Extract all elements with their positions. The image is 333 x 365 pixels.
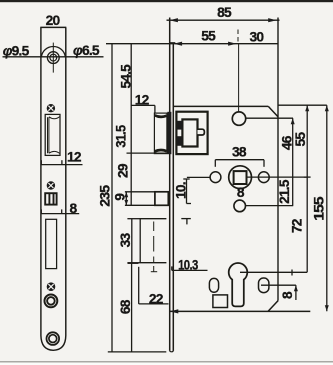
case bottom-right chamfer xyxy=(268,301,278,312)
dim 68 line xyxy=(131,263,133,352)
faceplate bottom cap xyxy=(170,351,174,352)
bottom extension line xyxy=(108,351,167,353)
dim 155 arrows xyxy=(325,105,329,111)
latch left black block upper xyxy=(177,121,183,130)
latch opening rect xyxy=(45,114,60,155)
oval right leader xyxy=(261,284,296,286)
ring hole R1 xyxy=(45,295,58,308)
dim 55 arrow left xyxy=(174,42,183,46)
tick on cylinder leader xyxy=(291,270,293,276)
hole centerline down to top hole xyxy=(238,44,240,112)
svg-text:54.5: 54.5 xyxy=(118,64,133,89)
screw hole S2 xyxy=(47,181,55,189)
latch outer box xyxy=(176,112,207,154)
euro cylinder profile xyxy=(229,263,248,306)
top extension line xyxy=(106,43,278,45)
dim 54.5 line xyxy=(130,44,132,206)
svg-text:9: 9 xyxy=(113,193,128,201)
bottom gray table line xyxy=(0,361,333,363)
dim 8 bottom-right arrow xyxy=(294,285,298,291)
dim 12 (top) line xyxy=(131,104,155,106)
top hole inner circle xyxy=(50,54,57,61)
phi leader line xyxy=(3,56,104,58)
latch bolt thick bottom edge xyxy=(155,150,167,151)
dim 8 (left view) line xyxy=(41,213,79,215)
deadbolt opening rect xyxy=(46,219,57,268)
top hole circle xyxy=(232,112,245,125)
dim 22 ext line xyxy=(138,267,140,304)
top dark border band xyxy=(0,0,333,2)
dim 8 stubs xyxy=(40,209,42,213)
dim 155 line xyxy=(326,105,328,311)
spindle leader right xyxy=(247,176,308,178)
ring hole R2 xyxy=(47,332,60,345)
spindle square xyxy=(234,171,247,184)
dim 46 line xyxy=(292,118,294,205)
svg-text:8: 8 xyxy=(69,201,77,216)
centerline dashes above dim xyxy=(237,30,239,42)
dim 235 line xyxy=(111,44,113,352)
latch inner box xyxy=(182,119,197,146)
dim 12 stubs xyxy=(40,160,42,164)
svg-text:8: 8 xyxy=(237,185,245,200)
case top-right chamfer xyxy=(268,106,278,117)
dim 20 line (plate top edge) xyxy=(40,26,66,28)
svg-text:12: 12 xyxy=(67,149,82,164)
dim 10. line xyxy=(186,179,188,204)
bottom lighter strip xyxy=(0,362,333,365)
latch right tab xyxy=(198,129,205,135)
dim 38 line xyxy=(215,159,264,161)
small oval left xyxy=(209,278,218,292)
screw hole S1 xyxy=(47,104,55,112)
svg-text:55: 55 xyxy=(201,29,216,44)
extended deadbolt rect xyxy=(140,219,166,263)
bolt-top right ext tick xyxy=(181,218,191,220)
case bottom edge xyxy=(170,310,310,312)
spindle left circle xyxy=(210,172,221,183)
dim 9 arrows xyxy=(124,192,128,197)
side box bottom ext xyxy=(125,204,157,206)
faceplate outline xyxy=(41,27,66,350)
faceplate side front edge xyxy=(169,18,171,351)
lower hole leader xyxy=(246,205,294,207)
side box top ext xyxy=(125,191,157,193)
spindle leader left xyxy=(187,176,210,178)
side box rect xyxy=(155,192,168,206)
dim 9 line xyxy=(125,192,127,206)
bolt top ext xyxy=(127,218,140,220)
dim 22 line xyxy=(139,303,169,305)
dim 55 arrow right xyxy=(228,42,237,46)
dim 46 top arrow xyxy=(291,118,295,124)
svg-text:8: 8 xyxy=(280,291,295,299)
tick latch bottom ext xyxy=(127,152,167,154)
cylinder leader xyxy=(240,271,307,273)
svg-text:235: 235 xyxy=(98,185,113,207)
latch left black block lower xyxy=(177,136,183,146)
dim 55 right tick at spindle xyxy=(304,176,311,178)
latch bolt dark neck through plate xyxy=(167,112,171,154)
svg-text:20: 20 xyxy=(46,13,61,28)
bolt bottom ext xyxy=(127,262,140,264)
spindle right circle xyxy=(258,172,269,183)
dim 85 line xyxy=(167,19,280,21)
svg-text:29: 29 xyxy=(116,163,131,178)
latch bolt side (protruding) xyxy=(154,113,167,154)
case right edge (and 85 ext) xyxy=(277,18,279,301)
dim 12 (lower left) line xyxy=(41,164,83,166)
top edge extension right xyxy=(278,104,327,106)
spindle hub outer circle xyxy=(229,166,252,189)
dim 33 line xyxy=(131,219,133,263)
dim 10.3 left stub xyxy=(171,266,173,270)
dim 68 top tick xyxy=(128,262,139,264)
dim 10.3 underline xyxy=(172,269,208,271)
svg-text:31.5: 31.5 xyxy=(114,125,129,148)
deadbolt dashed centerline xyxy=(151,222,157,272)
dim 10. ticks xyxy=(183,178,189,180)
hatched box xyxy=(45,193,56,204)
dim 38 stubs xyxy=(214,160,216,167)
svg-text:72: 72 xyxy=(290,218,305,233)
dim 85 arrows xyxy=(169,18,178,22)
lower hole circle xyxy=(234,200,246,212)
svg-text:30: 30 xyxy=(250,29,265,44)
svg-text:21.5: 21.5 xyxy=(277,179,292,204)
svg-text:22: 22 xyxy=(149,291,164,306)
dim 55/72 line xyxy=(306,105,308,272)
screw hole S3 xyxy=(47,282,56,291)
small oval right xyxy=(259,278,269,293)
case bottom edge left arrow xyxy=(170,309,179,313)
case top edge xyxy=(173,105,268,107)
svg-text:85: 85 xyxy=(217,5,232,20)
svg-text:38: 38 xyxy=(232,144,247,159)
svg-text:φ9.5: φ9.5 xyxy=(3,43,30,58)
svg-text:33: 33 xyxy=(118,233,133,248)
top hole leader xyxy=(246,117,293,119)
svg-text:φ6.5: φ6.5 xyxy=(73,43,100,58)
latch bolt front profile xyxy=(48,117,60,154)
svg-text:55: 55 xyxy=(293,132,308,147)
svg-text:10.: 10. xyxy=(173,182,188,199)
svg-text:68: 68 xyxy=(118,299,133,314)
dim 12 ext stub to latch xyxy=(154,105,156,113)
faceplate side back edge xyxy=(172,43,174,351)
top hole dome arc xyxy=(41,46,65,57)
small square xyxy=(213,295,228,308)
top hole vertical centerline xyxy=(52,43,54,73)
dim 8 bottom-right line xyxy=(295,285,297,300)
top hole outer circle xyxy=(47,52,59,64)
latch bolt thick top edge xyxy=(155,115,167,117)
faceplate top cap xyxy=(169,42,175,44)
svg-text:155: 155 xyxy=(312,196,327,221)
svg-text:12: 12 xyxy=(135,92,150,107)
dim 55 right top arrow xyxy=(305,105,309,111)
